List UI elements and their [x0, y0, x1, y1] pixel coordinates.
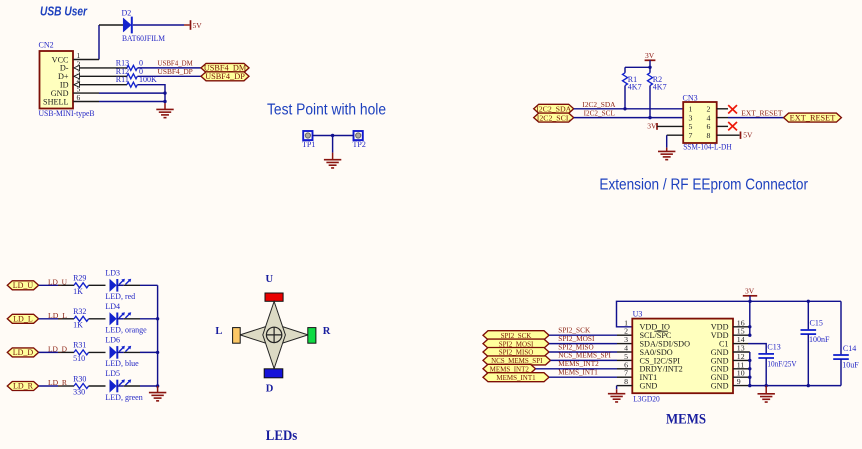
junction C15 bottom	[807, 384, 810, 387]
compass red LED rectangle (up)	[265, 293, 283, 301]
svg-text:SSM-104-L-DH: SSM-104-L-DH	[683, 142, 732, 151]
diode D2	[123, 17, 132, 34]
junction pin12	[748, 359, 751, 362]
svg-text:SHELL: SHELL	[43, 97, 68, 106]
svg-text:8: 8	[707, 131, 711, 140]
compass green LED rectangle (right)	[308, 328, 316, 344]
wire SPI2_SCK to U3 pin 2	[549, 334, 617, 336]
LED LD4	[110, 312, 131, 325]
pin 6 lead	[73, 101, 99, 103]
wire LD_R port to net label	[39, 385, 58, 387]
U3 pin 5 lead	[617, 359, 632, 361]
resistor R1 lead top	[624, 67, 626, 73]
svg-text:6: 6	[77, 93, 81, 102]
svg-text:4K7: 4K7	[653, 82, 667, 91]
wire R30 to LD5	[89, 385, 106, 387]
port I2C2_SCL	[534, 113, 574, 122]
svg-text:D: D	[266, 384, 274, 395]
wire MEMS_INT2 to U3 pin 6	[536, 368, 618, 370]
resistor R30	[74, 384, 89, 389]
junction between test points	[331, 134, 334, 137]
svg-text:5V: 5V	[193, 21, 203, 30]
svg-text:R30: R30	[73, 374, 86, 383]
gyroscope U3 body	[632, 319, 733, 394]
junction LED row 4	[156, 384, 159, 387]
resistor R2	[648, 73, 653, 86]
U3 pin 16 lead	[733, 326, 750, 328]
U3 pin 6 lead	[617, 368, 632, 370]
test point TP1	[303, 131, 312, 140]
resistor R13	[127, 65, 137, 70]
svg-text:6: 6	[707, 122, 711, 131]
power 3V (pull-ups)	[645, 51, 656, 60]
svg-text:LED, orange: LED, orange	[105, 326, 147, 335]
svg-text:8: 8	[624, 377, 628, 386]
svg-text:3V: 3V	[647, 122, 657, 131]
U3 pin 11 lead	[733, 368, 750, 370]
pin 8 lead	[717, 134, 740, 136]
svg-text:R32: R32	[73, 307, 86, 316]
svg-text:Extension / RF EEprom Connecto: Extension / RF EEprom Connector	[599, 177, 808, 194]
svg-text:EXT_RESET: EXT_RESET	[790, 113, 836, 122]
wire NCS_MEMS_SPI to U3 pin 5	[551, 359, 618, 361]
power stub 5V	[184, 24, 190, 26]
port EXT_RESET	[784, 113, 842, 122]
resistor R11	[127, 82, 137, 87]
compass star horizontal diamond	[240, 324, 308, 346]
junction 3V rail	[748, 300, 751, 303]
port SPI2_SCK	[483, 331, 549, 340]
wire SDA to CN3 pin1	[574, 108, 684, 110]
resistor R1 lead bottom	[624, 86, 626, 109]
svg-text:3: 3	[689, 113, 693, 122]
port I2C2_SDA	[534, 104, 574, 113]
port LD_D	[7, 348, 38, 357]
wire SPI2_MISO to U3 pin 4	[549, 351, 617, 353]
connector CN2 body	[40, 51, 74, 109]
svg-text:1: 1	[689, 105, 693, 114]
wire SHELL pin to rail	[99, 101, 165, 103]
no-connect X on pin 2	[728, 105, 737, 113]
svg-text:LD_L: LD_L	[13, 315, 33, 324]
wire diode cathode to 5V	[133, 24, 184, 26]
svg-text:R31: R31	[73, 341, 86, 350]
wire R12 to port DP	[137, 75, 201, 77]
port NCS_MEMS_SPI	[483, 356, 551, 365]
port USBF4_DM	[201, 63, 249, 72]
svg-text:MEMS_INT1: MEMS_INT1	[496, 374, 536, 382]
wire 3V rail down to VDD pins	[749, 301, 751, 335]
svg-text:LD_U: LD_U	[13, 281, 34, 290]
capacitor C14	[833, 355, 849, 359]
ground stem (MEMS rail)	[765, 386, 767, 394]
U3 pin 4 lead	[617, 351, 632, 353]
svg-text:LD3: LD3	[105, 268, 120, 277]
svg-text:LD6: LD6	[105, 335, 120, 344]
svg-text:5V: 5V	[743, 131, 753, 140]
bottom ground rail	[750, 385, 841, 387]
svg-text:2: 2	[707, 105, 711, 114]
svg-text:U: U	[266, 274, 274, 285]
svg-text:LED, red: LED, red	[105, 292, 135, 301]
wire SCL to CN3 pin3	[574, 117, 684, 119]
power 5V (USB)	[191, 20, 203, 30]
svg-text:L: L	[215, 326, 222, 337]
svg-text:LD_R: LD_R	[13, 382, 34, 391]
resistor R2 lead bottom	[649, 86, 651, 118]
U3 pin 2 lead	[617, 334, 632, 336]
junction pin15	[748, 334, 751, 337]
wire U3 pin1 VDD_IO up to 3V rail	[617, 301, 842, 327]
test point TP2	[354, 131, 363, 140]
svg-text:9: 9	[737, 377, 741, 386]
svg-text:LD_L: LD_L	[48, 311, 67, 320]
svg-text:U3: U3	[633, 309, 643, 318]
compass center circle with crosshair	[266, 327, 282, 343]
ground stem (CN3)	[666, 148, 668, 152]
junction at GND pin	[163, 91, 166, 94]
pin 1 lead	[73, 59, 99, 61]
pin 4 lead	[80, 84, 128, 86]
wire R32 to LD4	[89, 318, 106, 320]
no-connect X on pin 6	[728, 122, 737, 130]
gyroscope U3 left pin numbers 1-8	[624, 318, 628, 386]
wire TP1 to TP2	[313, 135, 354, 137]
power 5V (CN3 pin8)	[741, 131, 753, 140]
svg-text:5: 5	[689, 122, 693, 131]
junction R2/SCL	[648, 116, 651, 119]
wire LD5 to ground rail	[140, 385, 158, 387]
pin 2 lead	[80, 67, 128, 69]
ground stem (test point)	[332, 153, 334, 160]
junction R1/SDA	[623, 107, 626, 110]
port MEMS_INT2	[483, 364, 536, 373]
junction C15 top	[807, 300, 810, 303]
wire pin14 to C13	[748, 344, 766, 354]
junction 3V / R2	[648, 66, 651, 69]
svg-text:MEMS_INT1: MEMS_INT1	[558, 368, 598, 377]
svg-text:7: 7	[689, 131, 693, 140]
svg-text:LD_R: LD_R	[48, 378, 67, 387]
U3 pin 13 lead	[733, 351, 750, 353]
ground stem (LEDs)	[157, 386, 159, 392]
svg-text:L3GD20: L3GD20	[633, 395, 660, 404]
svg-text:3V: 3V	[745, 287, 755, 296]
svg-text:C14: C14	[843, 344, 856, 353]
svg-text:I2C2_SCL: I2C2_SCL	[584, 108, 616, 117]
connector CN2 input arrows on pins 2,3,4	[74, 65, 80, 87]
pin 3 lead	[80, 75, 128, 77]
wire LD6 to ground rail	[140, 351, 158, 353]
connector CN2 pin numbers 1-6	[77, 51, 81, 102]
svg-text:100nF: 100nF	[809, 335, 830, 344]
svg-text:510: 510	[73, 354, 85, 363]
svg-text:GND: GND	[711, 382, 729, 391]
svg-text:LEDs: LEDs	[266, 428, 298, 444]
LED LD6	[110, 346, 131, 359]
svg-text:1K: 1K	[73, 320, 83, 329]
resistor R32	[74, 316, 89, 321]
svg-text:LED, blue: LED, blue	[105, 359, 139, 368]
port LD_L	[7, 314, 38, 323]
resistor R29	[74, 283, 89, 288]
wire pin4 to EXT_RESET port	[728, 117, 784, 119]
power 3V (MEMS)	[743, 287, 757, 296]
resistor R12	[127, 74, 137, 79]
svg-text:330: 330	[73, 388, 85, 397]
ground stem (U3 pin8)	[616, 389, 618, 393]
wire junction to ground	[332, 136, 334, 153]
resistor R1	[623, 73, 628, 86]
junction pin9 / bottom rail	[748, 384, 751, 387]
wire 3V stem	[749, 296, 751, 302]
overline on SPC of SCL/SPC	[654, 330, 668, 332]
svg-text:Test Point with hole: Test Point with hole	[267, 102, 386, 119]
wire R11 to ground rail	[137, 85, 165, 104]
pin 4 lead	[717, 117, 728, 119]
gyroscope U3 right pin names	[711, 323, 729, 391]
wire LD4 to ground rail	[140, 318, 158, 320]
svg-text:C15: C15	[810, 318, 823, 327]
U3 pin 9 lead	[733, 385, 750, 387]
compass star vertical diamond	[263, 301, 286, 368]
port SPI2_MISO	[483, 348, 549, 357]
ground (test point)	[324, 160, 341, 168]
U3 pin 3 lead	[617, 343, 632, 345]
wire C15 bottom lead	[807, 334, 809, 386]
svg-text:GND: GND	[640, 382, 658, 391]
svg-text:4K7: 4K7	[628, 82, 642, 91]
connector CN3 pin numbers	[689, 105, 711, 140]
pin 5 lead	[73, 92, 99, 94]
svg-text:TP2: TP2	[353, 140, 366, 149]
U3 pin 10 lead	[733, 376, 750, 378]
svg-text:USBF4_DP: USBF4_DP	[205, 72, 245, 81]
svg-text:BAT60JFILM: BAT60JFILM	[122, 34, 165, 43]
wire LD_D port to net label	[39, 351, 58, 353]
junction pin16	[748, 325, 751, 328]
port LD_U	[7, 281, 38, 290]
svg-text:1K: 1K	[73, 287, 83, 296]
junction pin11	[748, 367, 751, 370]
svg-text:LD_U: LD_U	[48, 277, 68, 286]
LED LD3	[110, 279, 131, 292]
wire pin1 VCC riser	[98, 25, 100, 60]
svg-text:R: R	[323, 326, 331, 337]
svg-text:TP1: TP1	[302, 140, 315, 149]
ground (LEDs)	[149, 393, 166, 401]
U3 pin 8 GND lead	[617, 385, 633, 387]
U3 pin 7 lead	[617, 376, 632, 378]
U3 pin 12 lead	[733, 359, 750, 361]
GND bus vertical	[749, 352, 751, 386]
wire C14 top lead	[840, 301, 842, 355]
wire SPI2_MOSI to U3 pin 3	[549, 343, 617, 345]
port MEMS_INT1	[483, 373, 549, 382]
wire to diode anode	[99, 24, 123, 26]
svg-text:10uF: 10uF	[842, 360, 859, 369]
pin 7 lead	[667, 134, 684, 136]
wire C15 top lead	[807, 301, 809, 330]
svg-text:LD4: LD4	[105, 302, 120, 311]
svg-text:LD5: LD5	[105, 369, 120, 378]
svg-text:LD_D: LD_D	[48, 344, 68, 353]
ground (CN3)	[658, 151, 675, 159]
wire MEMS_INT1 to U3 pin 7	[549, 376, 617, 378]
wire LD3 to ground rail	[140, 284, 158, 286]
U3 pin 15 lead	[733, 334, 750, 336]
svg-text:CN2: CN2	[39, 41, 54, 50]
svg-text:CN3: CN3	[683, 93, 698, 102]
capacitor C15	[801, 330, 817, 334]
wire LD_L port to net label	[39, 318, 58, 320]
pin 2 lead (no connect)	[717, 108, 728, 110]
port SPI2_MOSI	[483, 339, 549, 348]
wire pin8 to ground	[616, 386, 618, 390]
wire C13 bottom to ground rail	[765, 358, 767, 386]
svg-text:3V: 3V	[645, 51, 655, 60]
wire pin7 to ground	[666, 135, 668, 147]
wire C14 bottom lead	[840, 359, 842, 386]
junction LED row 3	[156, 351, 159, 354]
U3 pin 14 lead (C1)	[733, 343, 748, 345]
compass orange LED rectangle (left)	[233, 328, 241, 344]
svg-text:C13: C13	[767, 343, 780, 352]
svg-text:10nF/25V: 10nF/25V	[767, 360, 796, 369]
svg-text:I2C2_SCL: I2C2_SCL	[537, 113, 571, 122]
resistor R31	[74, 350, 89, 355]
wire R31 to LD6	[89, 351, 106, 353]
svg-text:USB User: USB User	[40, 5, 88, 19]
ground (MEMS rail)	[758, 394, 775, 402]
power 3V (CN3 pin5)	[647, 122, 657, 131]
ground (USB section)	[156, 109, 173, 117]
junction at SHELL pin	[163, 100, 166, 103]
wire GND pin to rail	[99, 92, 165, 94]
port USBF4_DP	[201, 72, 249, 81]
junction pin10	[748, 376, 751, 379]
ground (U3 pin8)	[608, 394, 625, 402]
connector CN3 body	[683, 102, 717, 143]
svg-text:USB-MINI-typeB: USB-MINI-typeB	[39, 109, 95, 118]
pin 5 lead	[657, 125, 683, 127]
compass blue LED rectangle (down)	[264, 369, 283, 378]
connector CN2 pin names	[43, 55, 69, 106]
junction LED row 2	[156, 317, 159, 320]
svg-text:EXT_RESET: EXT_RESET	[741, 109, 783, 118]
ground rail vertical (LEDs)	[157, 285, 159, 386]
svg-text:MEMS: MEMS	[666, 412, 706, 428]
svg-text:LD_D: LD_D	[13, 348, 34, 357]
ground stem (USB)	[164, 103, 166, 109]
wire R29 to LD3	[89, 284, 106, 286]
pin 6 lead (no connect)	[717, 125, 728, 127]
LED LD5	[110, 379, 131, 392]
gyroscope U3 right pin numbers 16-9	[737, 318, 745, 386]
svg-text:R11: R11	[116, 75, 129, 84]
wire R13 to port DM	[137, 67, 201, 69]
svg-text:I2C2_SDA: I2C2_SDA	[536, 105, 571, 114]
svg-text:LED, green: LED, green	[105, 393, 142, 402]
capacitor C13	[758, 354, 774, 358]
gyroscope U3 left pin names	[640, 323, 691, 391]
svg-text:R29: R29	[73, 274, 86, 283]
junction C13 bottom / ground	[765, 384, 768, 387]
svg-text:D2: D2	[122, 8, 132, 17]
svg-text:4: 4	[707, 113, 711, 122]
wire 3V to R1/R2 tops	[649, 60, 651, 67]
resistor R2 lead top	[649, 67, 651, 73]
wire LD_U port to net label	[39, 284, 58, 286]
port LD_R	[7, 382, 38, 391]
